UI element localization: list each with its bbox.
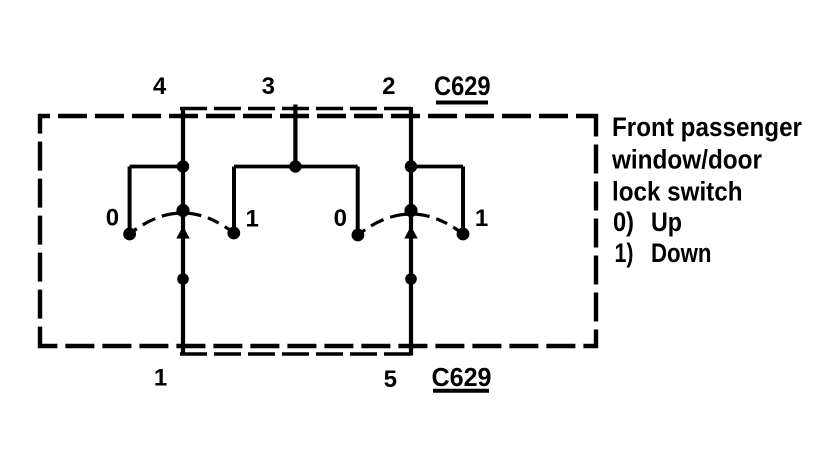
svg-text:0): 0) — [613, 207, 634, 237]
svg-text:0: 0 — [106, 205, 119, 232]
svg-text:4: 4 — [153, 73, 167, 100]
svg-text:Up: Up — [651, 207, 682, 237]
svg-text:3: 3 — [262, 73, 275, 100]
svg-text:1: 1 — [475, 205, 488, 232]
svg-text:1): 1) — [615, 238, 634, 268]
svg-text:1: 1 — [246, 206, 259, 233]
svg-text:lock switch: lock switch — [612, 177, 743, 207]
svg-text:C629: C629 — [434, 71, 491, 101]
svg-text:5: 5 — [384, 366, 397, 393]
svg-text:Front passenger: Front passenger — [612, 112, 802, 142]
svg-text:Down: Down — [651, 238, 712, 268]
svg-text:C629: C629 — [432, 362, 492, 392]
svg-text:window/door: window/door — [611, 145, 762, 175]
svg-text:1: 1 — [154, 364, 167, 391]
svg-text:0: 0 — [334, 205, 347, 232]
svg-text:2: 2 — [382, 73, 395, 100]
